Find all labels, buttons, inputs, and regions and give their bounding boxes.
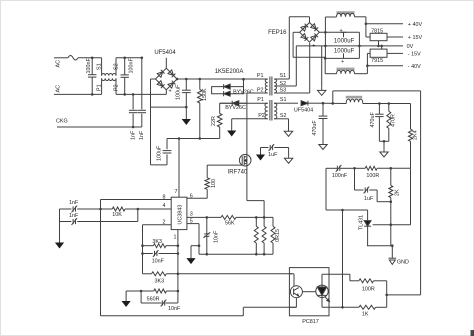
- svg-text:1K5E200A: 1K5E200A: [215, 69, 244, 75]
- svg-text:1000uF: 1000uF: [334, 39, 355, 45]
- regulator U2 7815 input: [366, 24, 370, 37]
- resistor R6 0R15 c: [271, 226, 275, 254]
- label T1 S1 aux: [280, 97, 287, 103]
- wire plus40 row: [365, 17, 403, 25]
- wire vcc cap return: [151, 164, 168, 166]
- wire ref row: [373, 223, 411, 226]
- svg-text:1000uF: 1000uF: [334, 49, 355, 55]
- wire VCC line: [167, 138, 220, 140]
- capacitor C11 1nF ct: [60, 213, 79, 225]
- label CKG: [56, 119, 68, 125]
- wire primary minus line: [151, 106, 188, 109]
- svg-text:0R15: 0R15: [275, 229, 281, 242]
- wire row1: [326, 167, 337, 169]
- bridge rectifier B1 UF5404: [156, 68, 178, 90]
- svg-text:1uF: 1uF: [268, 152, 278, 158]
- wire gate line: [207, 164, 242, 166]
- wire opto led link: [302, 291, 316, 293]
- wire collector entry: [289, 274, 294, 287]
- label BYV26 aux: [225, 105, 246, 111]
- label T1 S3 top: [280, 88, 287, 94]
- wire vref riser: [100, 200, 102, 210]
- fuse F1: [68, 56, 78, 61]
- label bridge plus: [169, 89, 172, 95]
- svg-text:1: 1: [174, 235, 177, 241]
- wire pin6 row: [187, 197, 207, 199]
- wire pin2 jog: [143, 225, 172, 274]
- svg-text:+: +: [341, 59, 344, 65]
- wire sense top row: [236, 216, 273, 226]
- label +15V: [408, 35, 423, 41]
- wire aux feed top: [332, 91, 421, 105]
- label pin6: [190, 194, 193, 200]
- svg-text:- 15V: - 15V: [408, 51, 421, 57]
- label pin4: [163, 203, 166, 209]
- optocoupler U5 PC817 box: [289, 268, 329, 316]
- wire S3 riser to FEP16: [284, 43, 310, 93]
- wire gnd left vertical: [59, 209, 61, 241]
- wire tl431 anode: [367, 244, 394, 247]
- capacitor C6 100uF vcc: [157, 139, 172, 165]
- svg-text:560R: 560R: [147, 296, 160, 302]
- label 0R15: [275, 229, 281, 242]
- diode D2 BYV26 snubber: [224, 91, 231, 96]
- ground 0V secondary: [318, 88, 326, 96]
- resistor R4 0R15 a: [254, 217, 258, 254]
- label T1 P1 aux: [257, 97, 264, 103]
- label 470uF: [312, 120, 318, 136]
- wire minus40 row: [366, 64, 403, 73]
- wire aux feed vertical: [420, 91, 422, 295]
- svg-text:7: 7: [175, 189, 178, 195]
- wire tl cathode drop: [342, 210, 344, 307]
- wire filter gnd join: [379, 140, 388, 150]
- regulator U2 7815: [370, 29, 387, 41]
- svg-text:7815: 7815: [371, 29, 383, 35]
- svg-text:100nF: 100nF: [128, 58, 134, 74]
- ground ycap primary: [256, 154, 265, 161]
- ic U1 UC3843: [171, 197, 187, 229]
- resistor R11 470R: [387, 104, 397, 142]
- capacitor C8 1000uF block2: [324, 49, 359, 66]
- label P1: [96, 84, 102, 91]
- choke L1 winding P1-P2: [102, 78, 116, 94]
- transistor Q1 IRF740: [239, 154, 251, 167]
- wire fuse to choke: [78, 57, 102, 59]
- transformer T1 core: [270, 77, 272, 121]
- svg-text:IRF740: IRF740: [228, 170, 248, 176]
- svg-text:1nF: 1nF: [69, 213, 79, 219]
- label T1 P2 top: [257, 88, 264, 94]
- svg-text:UC3843: UC3843: [178, 205, 184, 225]
- resistor R2 22R: [211, 103, 222, 138]
- wire sense bottom rail: [199, 253, 273, 256]
- svg-text:56K: 56K: [225, 221, 235, 227]
- wire top inductor feed: [324, 17, 336, 34]
- svg-text:100nF: 100nF: [86, 58, 92, 74]
- ground secondary GND: [389, 258, 397, 264]
- regulator U3 7915: [370, 49, 387, 64]
- svg-text:CKG: CKG: [56, 119, 68, 125]
- wire cathode to 1K row: [322, 306, 344, 309]
- wire FEP16 minus rail: [293, 32, 325, 57]
- label PC817: [302, 319, 318, 325]
- label 0V: [407, 44, 414, 50]
- label pin3: [190, 212, 193, 218]
- svg-text:PC817: PC817: [302, 319, 318, 325]
- label IRF740: [228, 170, 248, 176]
- svg-text:2K: 2K: [395, 189, 401, 196]
- wire ycap right ground: [288, 148, 290, 157]
- svg-text:S1: S1: [96, 63, 102, 70]
- svg-text:TL431: TL431: [358, 215, 364, 230]
- label pin5: [190, 219, 193, 225]
- diode D1 1K5E200A tvs: [224, 84, 231, 89]
- transformer T1 primary P1-P2: [247, 79, 268, 93]
- svg-text:+ 40V: + 40V: [408, 22, 423, 28]
- optocoupler U5 led: [316, 274, 330, 307]
- wire bridge minus out: [151, 79, 156, 165]
- svg-text:S1: S1: [280, 97, 287, 103]
- diode D4 UF5404 aux: [288, 101, 324, 106]
- transformer T1 aux primary: [220, 103, 268, 119]
- capacitor C12 10nF comp2: [141, 291, 181, 312]
- svg-text:P2: P2: [257, 88, 264, 94]
- capacitor C13 1uF ycap: [261, 144, 289, 158]
- label T1 S2 aux: [280, 113, 287, 119]
- label 1K5E200A: [215, 69, 244, 75]
- inductor L4 bottom: [337, 68, 368, 74]
- svg-text:P1: P1: [257, 97, 264, 103]
- svg-text:1K: 1K: [362, 311, 369, 317]
- wire pin1 vertical: [177, 230, 179, 291]
- diode D3 BYV26 aux: [232, 101, 239, 106]
- resistor R8 10K: [101, 207, 138, 218]
- ground primary at bulk cap: [182, 107, 191, 125]
- svg-text:5: 5: [190, 219, 193, 225]
- svg-text:1nF: 1nF: [69, 200, 79, 206]
- wire drain vertical: [246, 93, 248, 154]
- ground aux S2: [284, 129, 292, 136]
- capacitor C3 1nF to chassis: [138, 110, 146, 140]
- svg-text:22R: 22R: [211, 116, 217, 126]
- svg-text:100uF: 100uF: [176, 84, 182, 100]
- capacitor C15 470uF filter: [370, 104, 384, 142]
- svg-text:2K4: 2K4: [412, 130, 418, 140]
- resistor R16 1K: [343, 295, 387, 318]
- resistor R15 100R opto: [350, 279, 388, 296]
- svg-text:100nF: 100nF: [332, 173, 348, 179]
- wire AC live input: [54, 57, 68, 59]
- capacitor C10 1nF vref: [60, 200, 102, 212]
- capacitor C9 10nF sense: [203, 217, 219, 254]
- svg-text:P1: P1: [257, 73, 264, 79]
- svg-text:1nF: 1nF: [139, 130, 145, 140]
- bridge rectifier B2 FEP16: [300, 23, 320, 43]
- wire pin7 riser: [178, 137, 181, 197]
- wire source path: [247, 167, 264, 217]
- svg-text:150K: 150K: [202, 88, 208, 101]
- svg-text:3K3: 3K3: [155, 279, 165, 285]
- wire CKG chassis line: [57, 126, 142, 128]
- wire cathode row: [341, 209, 367, 212]
- svg-text:1uF: 1uF: [364, 196, 374, 202]
- svg-text:S2: S2: [280, 81, 287, 87]
- svg-text:P1: P1: [96, 84, 102, 91]
- svg-text:10nF: 10nF: [213, 230, 219, 243]
- label UF5404 aux: [294, 107, 313, 113]
- ground ycap secondary: [284, 156, 292, 163]
- resistor R1 150K: [198, 78, 208, 140]
- svg-text:100R: 100R: [362, 287, 375, 293]
- ground 560R loop: [122, 291, 142, 307]
- label BYV26 snubber: [233, 89, 254, 95]
- ground aux filter: [380, 150, 388, 157]
- svg-text:S1: S1: [280, 73, 287, 79]
- capacitor C17 1uF tl: [355, 168, 393, 203]
- wire S2 riser to 0V: [296, 46, 325, 86]
- svg-text:UF5404: UF5404: [294, 107, 313, 113]
- svg-text:10nF: 10nF: [152, 258, 165, 264]
- label T1 S1 top: [280, 73, 287, 79]
- svg-text:0V: 0V: [407, 44, 414, 50]
- svg-text:BYV26C: BYV26C: [225, 105, 246, 111]
- comp loop 10nF: [141, 250, 179, 264]
- label -40V: [408, 64, 421, 70]
- label P2: [114, 84, 120, 91]
- label -15V: [408, 51, 421, 57]
- capacitor C7 1000uF block: [324, 28, 403, 58]
- svg-text:3: 3: [190, 212, 193, 218]
- wire P2 to drain: [246, 92, 248, 94]
- resistor R7 56K: [221, 215, 236, 226]
- wire bridge bottom AC: [165, 90, 167, 95]
- label pin1: [174, 235, 177, 241]
- wire pin5 to rail: [187, 224, 199, 255]
- svg-text:P2: P2: [258, 113, 265, 119]
- label AC live: [56, 60, 62, 68]
- svg-text:3K3: 3K3: [152, 239, 162, 245]
- ground left: [55, 241, 64, 249]
- label T1 P1 top: [257, 73, 264, 79]
- capacitor C16 100nF: [332, 165, 356, 179]
- wire bridge plus rail: [176, 78, 268, 81]
- wire feed to anode node: [387, 294, 421, 296]
- wire pin3 row: [187, 216, 221, 219]
- label TL431: [358, 215, 364, 230]
- wire 0V ground jog: [321, 46, 323, 88]
- svg-text:1nF: 1nF: [131, 130, 137, 140]
- comp loop 3K3: [141, 239, 179, 248]
- label GND: [397, 259, 409, 265]
- wire ycap left ground: [260, 148, 262, 154]
- regulator U3 7915 stub0v: [377, 41, 380, 48]
- svg-text:GND: GND: [397, 259, 409, 265]
- label S1: [96, 63, 102, 70]
- inductor L3 aux: [346, 96, 363, 104]
- capacitor C4 1nF to chassis: [129, 93, 137, 140]
- svg-text:S2: S2: [280, 113, 287, 119]
- diode U4 TL431: [364, 210, 371, 246]
- label T1 S2 tap: [280, 81, 287, 87]
- wire plus15 row: [387, 36, 403, 38]
- svg-text:- 40V: - 40V: [408, 64, 421, 70]
- svg-text:+: +: [312, 43, 315, 49]
- transformer T1 secondary S1-S2-S3: [274, 79, 296, 93]
- wire minus15 row: [387, 52, 403, 54]
- wire bottom line after choke: [116, 93, 166, 95]
- svg-text:100R: 100R: [366, 173, 379, 179]
- svg-text:AC: AC: [56, 60, 62, 68]
- wire pin8 row: [101, 199, 172, 201]
- resistor R5 0R15 b: [262, 217, 266, 254]
- svg-text:FEP16: FEP16: [268, 30, 287, 36]
- wire aux row right: [363, 102, 411, 105]
- resistor R3 100R gate: [205, 165, 217, 198]
- wire AC neutral input: [54, 93, 102, 95]
- svg-text:100uF: 100uF: [157, 145, 163, 161]
- label FEP16 plus: [312, 43, 315, 49]
- transformer T1 aux secondary: [274, 103, 288, 119]
- svg-text:S2: S2: [114, 63, 120, 70]
- capacitor C2 100nF: [121, 57, 135, 96]
- wire gnd stub tl: [391, 246, 393, 259]
- svg-text:AC: AC: [56, 85, 62, 93]
- label +40V: [408, 22, 423, 28]
- svg-text:470uF: 470uF: [312, 120, 318, 136]
- wire FEP16 plus rail: [319, 31, 359, 33]
- svg-text:+: +: [169, 89, 172, 95]
- ground 470uF: [319, 142, 327, 150]
- resistor R13 100R tl: [355, 166, 411, 179]
- inductor L2 top: [337, 11, 366, 17]
- svg-text:7915: 7915: [371, 58, 383, 64]
- svg-text:10nF: 10nF: [168, 306, 181, 312]
- svg-text:UF5404: UF5404: [154, 50, 176, 56]
- wire aux S2 to ground: [288, 119, 290, 129]
- wire top AC to bridge riser: [141, 57, 144, 110]
- svg-text:BYV26C: BYV26C: [233, 89, 254, 95]
- regulator U3 7915 top stub: [380, 45, 383, 49]
- label pin2: [163, 220, 166, 226]
- label FEP16: [268, 30, 287, 36]
- svg-text:+: +: [340, 28, 343, 34]
- wire aux P2 to ground: [232, 118, 268, 120]
- choke L1 winding S1-S2: [102, 58, 116, 76]
- snubber loop wire: [212, 78, 245, 94]
- svg-text:+ 15V: + 15V: [408, 35, 423, 41]
- ground pin5: [186, 244, 200, 264]
- wire led anode row: [322, 274, 350, 281]
- resistor R10 560R: [140, 289, 179, 302]
- wire aux row: [323, 102, 346, 104]
- label S2: [114, 63, 120, 70]
- resistor R9 3K3 fb: [152, 272, 293, 285]
- capacitor C5 100uF bulk: [176, 78, 191, 107]
- wire aux diode row: [220, 102, 247, 104]
- wire ct row: [77, 209, 138, 222]
- capacitor C14 470uF: [319, 103, 328, 143]
- resistor R12 2K4: [409, 104, 419, 169]
- wire bridge top AC: [165, 58, 167, 68]
- optocoupler U5 transistor: [290, 286, 302, 298]
- wire S1 riser to FEP16: [284, 17, 310, 79]
- svg-text:470R: 470R: [390, 114, 396, 127]
- wire top line after choke: [116, 57, 142, 59]
- label pin8: [163, 194, 166, 200]
- svg-text:10K: 10K: [112, 212, 122, 218]
- regulator U3 7915 input: [367, 53, 370, 65]
- ground aux winding: [227, 119, 236, 137]
- wire row1 right jog: [410, 168, 412, 224]
- wire row1 left jog: [326, 168, 343, 210]
- svg-text:6: 6: [190, 194, 193, 200]
- svg-text:4: 4: [163, 203, 166, 209]
- label UF5404 bridge: [154, 50, 176, 56]
- resistor R14 2K: [389, 168, 401, 245]
- svg-text:100: 100: [211, 179, 217, 188]
- label AC neutral: [56, 85, 62, 93]
- wire vref to emitter bottom line: [101, 209, 297, 316]
- label pin7: [175, 189, 178, 195]
- capacitor C1 100nF: [86, 57, 96, 96]
- label T1 P2 aux: [258, 113, 265, 119]
- inductor L4 bottom feed: [325, 58, 336, 73]
- svg-text:P2: P2: [114, 84, 120, 91]
- svg-text:470uF: 470uF: [370, 112, 376, 128]
- wire pin4 row: [137, 208, 172, 211]
- wire fb row to opto: [143, 273, 180, 276]
- wire emitter exit: [289, 298, 296, 308]
